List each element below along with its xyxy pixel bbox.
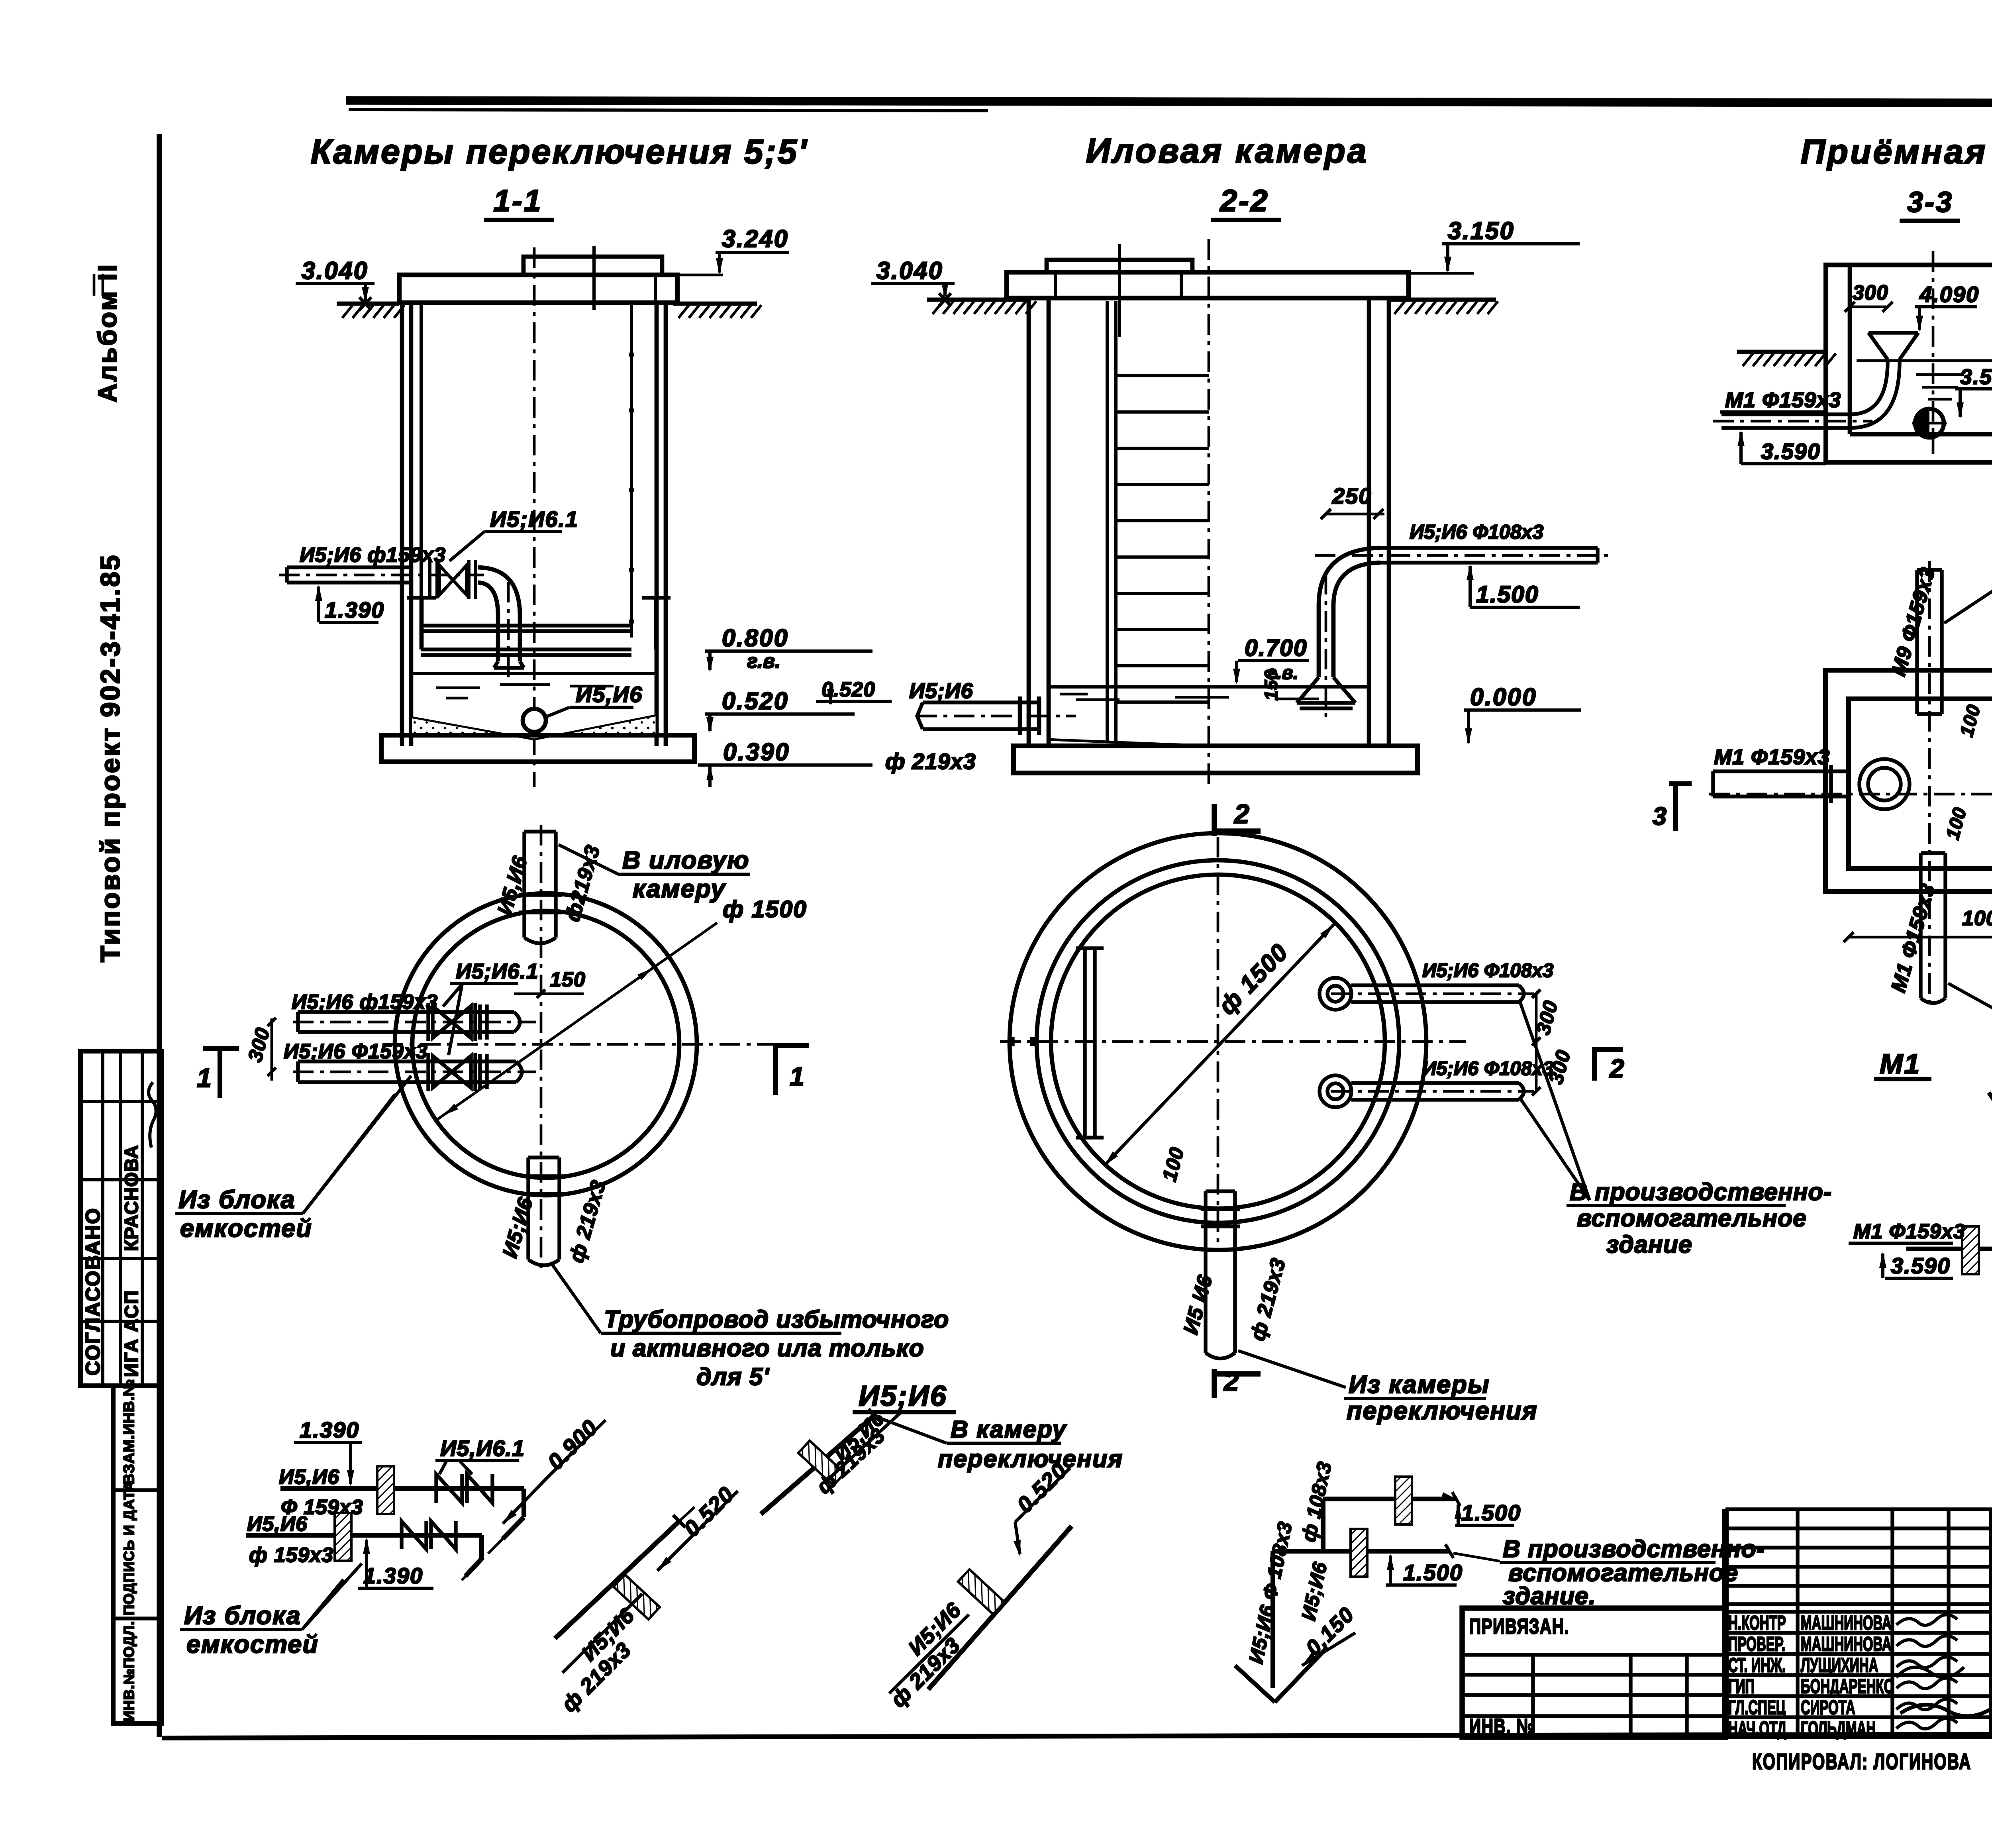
svg-text:вспомогательное: вспомогательное (1577, 1205, 1807, 1232)
svg-text:ПРОВЕР.: ПРОВЕР. (1728, 1633, 1785, 1655)
svg-text:Приёмная камера.: Приёмная камера. (1801, 133, 1992, 171)
svg-text:И5;И6 ф159х3: И5;И6 ф159х3 (292, 991, 438, 1014)
svg-text:2-2: 2-2 (1219, 184, 1269, 218)
svg-text:М1 Ф159х3: М1 Ф159х3 (1853, 1220, 1965, 1243)
svg-text:0.800: 0.800 (722, 624, 789, 651)
svg-text:И5,И6.1: И5,И6.1 (440, 1436, 525, 1461)
svg-text:3: 3 (1653, 802, 1667, 830)
svg-text:М1 Ф159х3: М1 Ф159х3 (1714, 745, 1830, 769)
svg-text:СОГЛАСОВАНО: СОГЛАСОВАНО (82, 1207, 104, 1375)
svg-text:3.240: 3.240 (722, 225, 789, 252)
svg-text:здание.: здание. (1503, 1582, 1596, 1609)
svg-text:для 5': для 5' (696, 1363, 770, 1390)
svg-text:КОПИРОВАЛ: ЛОГИНОВА: КОПИРОВАЛ: ЛОГИНОВА (1752, 1750, 1971, 1774)
svg-text:НАЧ.ОТД: НАЧ.ОТД (1728, 1717, 1786, 1739)
svg-text:М1 Ф159х3: М1 Ф159х3 (1725, 388, 1841, 412)
svg-text:И5,И6: И5,И6 (576, 682, 643, 707)
svg-text:Трубопровод избыточного: Трубопровод избыточного (604, 1306, 949, 1333)
svg-text:ИГА АСП: ИГА АСП (121, 1290, 142, 1377)
svg-text:2: 2 (1609, 1053, 1624, 1083)
svg-text:КРАСНОВА: КРАСНОВА (121, 1145, 142, 1251)
svg-text:3.590: 3.590 (1891, 1253, 1951, 1278)
svg-text:1.390: 1.390 (300, 1417, 359, 1442)
svg-text:0.700: 0.700 (1245, 635, 1308, 661)
svg-text:И5;И6.1: И5;И6.1 (490, 506, 578, 532)
svg-text:3.040: 3.040 (876, 257, 943, 284)
svg-text:И5,И6: И5,И6 (247, 1513, 308, 1536)
svg-text:1-1: 1-1 (493, 184, 542, 218)
svg-text:переключения: переключения (1347, 1397, 1538, 1425)
svg-text:В иловую: В иловую (622, 846, 750, 874)
svg-text:Н.КОНТР: Н.КОНТР (1728, 1612, 1786, 1634)
svg-text:Альбом II: Альбом II (92, 263, 122, 402)
svg-text:БОНДАРЕНКО: БОНДАРЕНКО (1801, 1675, 1894, 1697)
svg-text:3.150: 3.150 (1448, 217, 1515, 244)
svg-text:1.390: 1.390 (363, 1563, 423, 1588)
svg-text:ЛУЩИХИНА: ЛУЩИХИНА (1801, 1654, 1878, 1676)
svg-text:МАШНИНОВА: МАШНИНОВА (1801, 1612, 1892, 1634)
svg-text:ИНВ.№ПОДЛ.: ИНВ.№ПОДЛ. (121, 1621, 137, 1721)
svg-text:здание: здание (1606, 1231, 1692, 1258)
svg-text:ПРИВЯЗАН.: ПРИВЯЗАН. (1469, 1615, 1569, 1638)
svg-text:емкостей: емкостей (180, 1214, 312, 1242)
svg-text:ГОЛЬДМАН: ГОЛЬДМАН (1801, 1717, 1876, 1739)
svg-text:М1: М1 (1880, 1048, 1921, 1079)
svg-text:1000: 1000 (1962, 907, 1992, 930)
svg-text:И5;И6 Ф108х3: И5;И6 Ф108х3 (1410, 521, 1543, 543)
svg-text:250: 250 (1332, 483, 1372, 508)
svg-text:Типовой проект: Типовой проект (95, 726, 125, 962)
svg-text:камеру: камеру (633, 875, 726, 903)
svg-text:2: 2 (1223, 1366, 1239, 1397)
svg-text:И5,И6: И5,И6 (279, 1465, 339, 1489)
svg-text:И5;И6.1: И5;И6.1 (456, 959, 539, 983)
svg-text:2: 2 (1233, 799, 1249, 829)
svg-text:150: 150 (1261, 669, 1281, 700)
svg-text:В производственно-: В производственно- (1570, 1178, 1832, 1205)
svg-text:3.040: 3.040 (302, 257, 369, 284)
svg-text:1.500: 1.500 (1403, 1560, 1463, 1585)
svg-text:Из блока: Из блока (178, 1186, 296, 1214)
svg-text:ВЗАМ.ИНВ.№: ВЗАМ.ИНВ.№ (121, 1379, 137, 1485)
svg-text:И5;И6 ф159х3: И5;И6 ф159х3 (300, 543, 446, 567)
svg-text:ф 1500: ф 1500 (723, 896, 807, 922)
svg-text:300: 300 (1853, 281, 1888, 304)
svg-text:МАШНИНОВА: МАШНИНОВА (1801, 1633, 1892, 1655)
svg-text:1: 1 (790, 1061, 804, 1091)
svg-text:0.520: 0.520 (722, 687, 789, 714)
svg-text:Камеры переключения 5;5': Камеры переключения 5;5' (311, 133, 808, 171)
svg-text:1.390: 1.390 (325, 597, 384, 622)
svg-text:1.500: 1.500 (1476, 581, 1539, 608)
svg-text:3.590: 3.590 (1960, 365, 1992, 389)
svg-text:902-3-41.85: 902-3-41.85 (95, 553, 125, 717)
svg-text:емкостей: емкостей (186, 1630, 319, 1658)
svg-text:0.390: 0.390 (723, 738, 790, 765)
svg-text:И5;И6: И5;И6 (859, 1380, 947, 1412)
svg-text:г.в.: г.в. (747, 650, 780, 672)
svg-text:СТ. ИНЖ.: СТ. ИНЖ. (1728, 1654, 1786, 1676)
svg-text:ф 159х3: ф 159х3 (249, 1544, 333, 1567)
svg-text:И5;И6 Ф108х3: И5;И6 Ф108х3 (1422, 960, 1553, 981)
svg-text:ПОДПИСЬ И ДАТА: ПОДПИСЬ И ДАТА (121, 1481, 137, 1615)
svg-text:И5;И6 Ф159х3: И5;И6 Ф159х3 (284, 1040, 428, 1063)
svg-text:ИНВ. №: ИНВ. № (1469, 1715, 1535, 1738)
svg-text:1.500: 1.500 (1461, 1500, 1521, 1525)
svg-text:ГИП: ГИП (1728, 1675, 1755, 1697)
svg-text:3-3: 3-3 (1907, 186, 1953, 218)
svg-text:переключения: переключения (938, 1445, 1123, 1472)
svg-text:ГЛ.СПЕЦ: ГЛ.СПЕЦ (1728, 1696, 1786, 1718)
svg-text:ф 219х3: ф 219х3 (885, 749, 976, 774)
svg-text:150: 150 (550, 968, 586, 991)
svg-text:и активного ила только: и активного ила только (610, 1334, 924, 1361)
svg-text:В камеру: В камеру (951, 1416, 1067, 1443)
svg-text:И5;И6 Ф108х3: И5;И6 Ф108х3 (1422, 1058, 1553, 1079)
svg-text:3.590: 3.590 (1761, 439, 1821, 464)
svg-text:И5;И6: И5;И6 (909, 679, 973, 703)
svg-text:0.000: 0.000 (1470, 683, 1537, 710)
svg-text:Из блока: Из блока (184, 1602, 301, 1630)
svg-text:1: 1 (197, 1063, 212, 1093)
svg-text:4.090: 4.090 (1919, 282, 1979, 307)
svg-text:Иловая камера: Иловая камера (1086, 132, 1368, 170)
svg-text:Из камеры: Из камеры (1349, 1371, 1490, 1399)
svg-text:СИРОТА: СИРОТА (1801, 1696, 1855, 1718)
